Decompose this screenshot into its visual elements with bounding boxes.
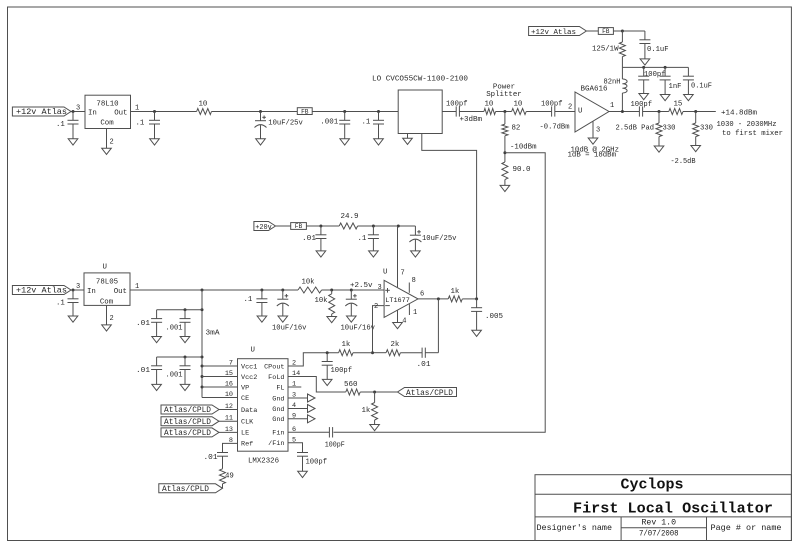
svg-text:Atlas/CPLD: Atlas/CPLD — [162, 485, 209, 494]
svg-text:4: 4 — [402, 317, 406, 325]
power flag +12v Atlas (middle) — [12, 286, 71, 296]
ground (BGA616 pin3) — [588, 138, 598, 144]
svg-text:Page # or name: Page # or name — [711, 523, 782, 533]
svg-text:LT1677: LT1677 — [385, 297, 410, 305]
resistor 15 (pad series) — [669, 100, 683, 114]
svg-text:100pF: 100pF — [325, 441, 345, 449]
power flag +12v Atlas (top left) — [12, 107, 71, 117]
ferrite bead FB (amp supply) — [598, 28, 613, 36]
wire supply bus — [622, 66, 688, 69]
wire FB to LO box — [312, 110, 398, 113]
capacitor 100pf (bus) — [638, 67, 665, 93]
wire VP pin 16 — [202, 386, 238, 388]
svg-text:In: In — [87, 288, 96, 296]
ground (100pf CPout) — [322, 379, 332, 385]
svg-text:FoLd: FoLd — [268, 374, 284, 382]
svg-text:7/07/2008: 7/07/2008 — [639, 529, 679, 538]
title page cell — [711, 523, 782, 533]
svg-text:Splitter: Splitter — [486, 91, 521, 99]
wire FB to 24.9 — [306, 225, 339, 228]
svg-text:6: 6 — [420, 291, 424, 299]
svg-text:.01: .01 — [136, 320, 151, 328]
ground (78L05 Com) — [102, 325, 112, 331]
capacitor .01 (branch 1) — [136, 310, 162, 337]
svg-text:100pf: 100pf — [631, 101, 653, 109]
wire CE pin 10 — [202, 397, 238, 399]
svg-text:1030 - 2030MHz: 1030 - 2030MHz — [717, 121, 777, 129]
svg-text:LMX2326: LMX2326 — [248, 458, 279, 466]
svg-text:Rev 1.0: Rev 1.0 — [642, 518, 677, 527]
wire Gnd pin 3 — [288, 397, 308, 399]
power flag +20v — [254, 222, 276, 232]
resistor 125/1W — [592, 31, 625, 67]
ground arrow (Gnd 9) — [308, 415, 316, 423]
ferrite bead FB (+20v) — [291, 223, 307, 231]
wire splitter to input cap — [526, 111, 551, 113]
flag Atlas/CPLD (CLK) — [161, 417, 238, 427]
svg-text:8: 8 — [412, 277, 416, 285]
ground (10uF/16v ref) — [347, 316, 357, 322]
capacitor .01 (Ref) — [204, 453, 229, 469]
svg-text:2.5dB Pad: 2.5dB Pad — [616, 124, 655, 132]
svg-text:U: U — [578, 108, 582, 116]
capacitor 10uF/25v (top rail) — [255, 112, 304, 139]
svg-text:.001: .001 — [166, 372, 184, 380]
ground (10k shunt) — [327, 317, 337, 323]
svg-text:10: 10 — [199, 100, 208, 108]
wire Vcc bus vertical — [201, 290, 204, 398]
wire Vcc1 pin 7 — [202, 365, 238, 367]
ground (100pf bus) — [639, 94, 649, 100]
capacitor .01 (branch 2) — [136, 357, 162, 384]
pin 3 label (LT1677) — [378, 284, 382, 292]
capacitor 1nF (bus) — [660, 67, 682, 94]
pin 3 label (78L05) — [76, 283, 80, 291]
ground (78L10 Com) — [102, 148, 112, 154]
wire 24.9 to 10uF — [358, 225, 416, 228]
op-amp U LT1677 — [383, 269, 418, 318]
flag Atlas/CPLD (FoLd) — [398, 388, 457, 398]
pin 2 wire (inverting input) — [373, 303, 385, 353]
svg-text:82nH: 82nH — [604, 78, 621, 86]
ground (10uF/16v rail) — [278, 316, 288, 322]
svg-text:100pf: 100pf — [541, 100, 563, 108]
ground (.01 branch2) — [152, 384, 162, 390]
capacitor .1 (78L10 output) — [136, 112, 161, 139]
svg-text:/Fin: /Fin — [268, 440, 284, 448]
regulator U 78L10 — [85, 95, 131, 128]
svg-text:1k: 1k — [362, 407, 371, 415]
wire -10dBm feedback to Fin — [334, 153, 546, 433]
ground (.001 branch2) — [180, 384, 190, 390]
svg-text:+14.8dBm: +14.8dBm — [721, 109, 758, 117]
wire 78L10 Com to ground — [107, 129, 114, 149]
svg-text:10: 10 — [514, 100, 523, 108]
capacitor 100pf (CPout) — [322, 353, 352, 380]
resistor 10k (divider series) — [298, 278, 322, 293]
wire opamp pin 4 to ground — [398, 310, 407, 325]
wire 90.0 to ground — [504, 180, 506, 186]
svg-text:2k: 2k — [391, 341, 400, 349]
resistor 10 (splitter left) — [484, 100, 496, 114]
svg-text:330: 330 — [663, 124, 676, 132]
svg-text:.001: .001 — [320, 119, 339, 127]
svg-text:.01: .01 — [417, 361, 432, 369]
title block frame — [535, 475, 791, 541]
svg-text:100pf: 100pf — [306, 459, 328, 467]
wire CPout pin 2 handled above — [0, 0, 1, 1]
ground (100pf /Fin) — [298, 471, 308, 477]
svg-text:1k: 1k — [451, 288, 460, 296]
svg-text:.1: .1 — [362, 119, 371, 127]
capacitor .005 — [471, 299, 503, 330]
wire output to feedback — [437, 299, 439, 353]
ground (.001 branch1) — [180, 337, 190, 343]
svg-text:-10dBm: -10dBm — [510, 144, 537, 152]
svg-text:100pf: 100pf — [446, 100, 468, 108]
svg-text:2: 2 — [292, 360, 296, 368]
ground (10uF/25v opamp) — [411, 251, 421, 257]
pin 1 label (BGA616) — [610, 102, 614, 110]
svg-text:LE: LE — [241, 430, 249, 438]
svg-text:LO CVCO55CW-1100-2100: LO CVCO55CW-1100-2100 — [372, 76, 468, 84]
svg-text:2: 2 — [568, 103, 572, 111]
node pad input — [616, 110, 669, 132]
ground (0.1uF amp supply) — [640, 59, 650, 65]
svg-text:U: U — [251, 347, 255, 355]
capacitor .001 (branch 2) — [166, 357, 191, 384]
svg-text:.1: .1 — [56, 300, 65, 308]
capacitor 100pf (LO output) — [442, 100, 484, 124]
svg-text:VP: VP — [241, 384, 249, 392]
ground (output .1 cap) — [150, 139, 160, 145]
pin 3 label — [76, 105, 80, 113]
oscillator LO CVCO55CW-1100-2100 — [372, 76, 468, 134]
svg-text:Fin: Fin — [272, 430, 284, 438]
svg-text:24.9: 24.9 — [341, 213, 359, 221]
capacitor 100pf (BGA616 input) — [540, 100, 576, 131]
wire FL stub pin 1 — [288, 386, 301, 388]
svg-text:10k: 10k — [302, 278, 316, 286]
resistor 330 (pad shunt 2) — [693, 112, 713, 146]
wire bypass branch 2 — [157, 356, 202, 359]
LMX2326 pin labels — [225, 360, 300, 449]
svg-text:1: 1 — [135, 283, 139, 291]
title designer cell — [537, 523, 613, 533]
svg-text:Cyclops: Cyclops — [621, 477, 684, 494]
svg-text:125/1W: 125/1W — [592, 46, 619, 54]
ground (330 pad 1) — [654, 146, 664, 152]
title rev cell — [639, 518, 679, 538]
pin 1 stub (LT1677) — [409, 304, 417, 317]
svg-text:First Local Oscillator: First Local Oscillator — [573, 501, 773, 518]
svg-text:Atlas/CPLD: Atlas/CPLD — [164, 418, 211, 427]
svg-text:.005: .005 — [485, 313, 503, 321]
svg-text:FB: FB — [301, 108, 309, 115]
resistor 560 — [344, 381, 360, 395]
svg-text:CLK: CLK — [241, 419, 254, 427]
svg-text:2: 2 — [110, 139, 114, 147]
svg-text:Gnd: Gnd — [272, 416, 284, 424]
svg-text:15: 15 — [674, 100, 683, 108]
svg-text:+12v Atlas: +12v Atlas — [531, 29, 576, 37]
svg-text:U: U — [103, 263, 107, 271]
wire BGA616 output — [609, 110, 638, 113]
svg-text:100pf: 100pf — [331, 367, 353, 375]
flag Atlas/CPLD (Data) — [161, 405, 238, 415]
svg-text:CPout: CPout — [264, 363, 284, 371]
svg-text:Designer's name: Designer's name — [537, 523, 613, 533]
ground arrow (Gnd 3) — [308, 394, 316, 402]
ground (.001 cap) — [340, 139, 350, 145]
svg-text:Atlas/CPLD: Atlas/CPLD — [164, 406, 211, 415]
amplifier U BGA616 — [575, 85, 609, 132]
title Cyclops — [621, 477, 684, 494]
power flag +12v Atlas (top right) — [529, 27, 587, 37]
output label — [717, 109, 784, 138]
regulator U 78L05 — [84, 263, 130, 306]
resistor 10 (splitter right) — [512, 100, 527, 114]
svg-text:CE: CE — [241, 395, 249, 403]
resistor 1k (FoLd) — [362, 392, 378, 425]
svg-text:to first mixer: to first mixer — [722, 130, 783, 138]
power splitter label — [486, 83, 521, 99]
svg-text:-2.5dB: -2.5dB — [671, 158, 697, 166]
svg-text:+2.5v: +2.5v — [350, 282, 373, 290]
capacitor 0.1uF (amp supply) — [639, 31, 668, 59]
svg-text:Out: Out — [114, 288, 127, 296]
inductor 82nH — [604, 67, 628, 111]
svg-text:10uF/16v: 10uF/16v — [272, 324, 307, 332]
ground (.01 branch1) — [152, 337, 162, 343]
svg-text:1: 1 — [413, 309, 417, 317]
capacitor .01 (+20v) — [302, 226, 326, 251]
ground (LO box) — [403, 138, 413, 144]
svg-text:Com: Com — [100, 119, 114, 127]
svg-text:In: In — [88, 110, 97, 118]
gain note — [568, 146, 620, 159]
ground (330 pad 2) — [691, 146, 701, 152]
svg-text:+3dBm: +3dBm — [460, 116, 483, 124]
wire Fin pin 6 — [288, 431, 329, 433]
svg-text:10: 10 — [485, 100, 494, 108]
svg-text:2: 2 — [110, 315, 114, 323]
capacitor 100pf (amp output) — [631, 101, 660, 117]
svg-text:78L05: 78L05 — [96, 278, 118, 286]
svg-text:560: 560 — [344, 381, 358, 389]
pin 8 stub (LT1677) — [409, 277, 416, 293]
svg-text:FB: FB — [295, 223, 303, 230]
svg-text:BGA616: BGA616 — [581, 85, 608, 93]
wire Ref pin 8 — [223, 443, 238, 452]
wire BGA616 pin 3 to ground — [593, 121, 600, 138]
svg-text:+12v Atlas: +12v Atlas — [16, 107, 67, 117]
node pad output — [683, 110, 716, 113]
svg-text:FB: FB — [602, 28, 610, 35]
ground (.005 cap) — [472, 330, 482, 336]
capacitor .1 (78L05 input) — [56, 290, 79, 316]
current label 3mA — [206, 330, 221, 338]
node -10dBm — [503, 136, 537, 162]
svg-text:10uF/25v: 10uF/25v — [422, 235, 457, 243]
wire Out to resistor — [131, 105, 197, 114]
ground (.1 cap) — [374, 139, 384, 145]
ground (78L05 input cap) — [68, 316, 78, 322]
svg-text:Atlas/CPLD: Atlas/CPLD — [406, 389, 453, 398]
resistor 1k (feedback) — [339, 341, 373, 356]
wire flag to U78L10 In — [71, 110, 85, 113]
svg-text:2: 2 — [374, 303, 378, 311]
node FoLd junction — [360, 391, 397, 394]
ground (LT1677 pin 4) — [393, 323, 403, 329]
wire 1k to Vtune node — [462, 297, 478, 300]
svg-text:Vcc1: Vcc1 — [241, 363, 257, 371]
wire +20v flag to FB — [276, 225, 291, 227]
wire LO ground pin — [407, 134, 409, 139]
svg-text:3: 3 — [378, 284, 382, 292]
ground (1nF bus) — [660, 95, 670, 101]
svg-text:3mA: 3mA — [206, 330, 221, 338]
flag Atlas/CPLD (Ref) — [159, 484, 223, 494]
ferrite bead FB (top rail) — [297, 108, 312, 116]
resistor 82 (splitter shunt) — [502, 112, 520, 136]
svg-text:100pf: 100pf — [644, 71, 666, 79]
svg-text:3: 3 — [596, 126, 600, 134]
svg-text:Ref: Ref — [241, 441, 253, 449]
svg-text:10k: 10k — [315, 297, 329, 305]
svg-text:90.0: 90.0 — [513, 166, 531, 174]
capacitor .001 (LO supply) — [320, 112, 350, 139]
wire resistor to FB — [212, 110, 298, 113]
svg-text:330: 330 — [700, 125, 713, 133]
svg-text:1nF: 1nF — [669, 83, 682, 91]
ground (.01 +20v) — [316, 251, 326, 257]
svg-text:FL: FL — [276, 384, 284, 392]
svg-text:3: 3 — [76, 283, 80, 291]
capacitor .01 (feedback) — [400, 348, 438, 369]
svg-text:7: 7 — [401, 270, 405, 278]
capacitor 100pF (Fin) — [325, 427, 345, 449]
capacitor 10uF/16v (2.5v ref) — [341, 290, 376, 332]
svg-text:Vcc2: Vcc2 — [241, 374, 257, 382]
capacitor 100pf (/Fin) — [297, 453, 327, 472]
capacitor .1 (LO supply) — [362, 112, 385, 139]
svg-text:10uF/16v: 10uF/16v — [341, 324, 376, 332]
svg-text:U: U — [383, 269, 387, 277]
flag Atlas/CPLD (LE) — [161, 428, 238, 438]
ground (10uF/25v) — [256, 139, 266, 145]
svg-text:.1: .1 — [244, 296, 253, 304]
capacitor .001 (branch 1) — [166, 310, 191, 337]
svg-text:.1: .1 — [358, 235, 367, 243]
svg-text:78L10: 78L10 — [96, 100, 118, 108]
svg-text:1dB = 18dBm: 1dB = 18dBm — [568, 152, 617, 160]
wire flag to FB — [586, 30, 598, 32]
svg-text:82: 82 — [512, 124, 521, 132]
resistor 24.9 — [339, 213, 358, 229]
svg-text:49: 49 — [225, 473, 234, 481]
wire LO Vtune path — [422, 134, 477, 300]
title First Local Oscillator — [573, 501, 773, 518]
ground (90.0 resistor) — [500, 185, 510, 191]
svg-text:Data: Data — [241, 407, 257, 415]
capacitor .1 (5v rail) — [244, 290, 268, 316]
resistor 1k (opamp output) — [448, 288, 462, 302]
capacitor .1 (78L10 input) — [56, 112, 79, 139]
resistor 330 (pad shunt 1) — [656, 112, 676, 147]
capacitor .1 (opamp supply) — [358, 226, 379, 251]
capacitor 10uF/25v (opamp supply) — [409, 226, 457, 251]
ground (1k FoLd) — [370, 425, 380, 431]
ground (.1 5v rail) — [257, 316, 267, 322]
svg-text:0.1uF: 0.1uF — [647, 46, 669, 54]
svg-text:+12v Atlas: +12v Atlas — [16, 286, 67, 296]
ground (.1 opamp supply) — [369, 251, 379, 257]
resistor 90.0 (splitter shunt 2) — [502, 162, 531, 180]
wire opamp pin 7 — [398, 226, 405, 287]
svg-text:Gnd: Gnd — [272, 395, 284, 403]
node +2.5v — [322, 282, 385, 292]
svg-text:1: 1 — [610, 102, 614, 110]
svg-text:-0.7dBm: -0.7dBm — [540, 123, 571, 131]
capacitor 10uF/16v (5v rail) — [272, 290, 307, 332]
svg-text:.1: .1 — [136, 119, 145, 127]
resistor 2k (feedback) — [386, 341, 400, 356]
svg-text:1k: 1k — [342, 341, 351, 349]
resistor 10k (divider shunt) — [315, 290, 335, 317]
pin 6 output wire — [418, 291, 448, 301]
svg-text:.01: .01 — [302, 235, 317, 243]
wire FoLd pin 14 — [288, 377, 346, 393]
capacitor 0.1uF (bus) — [683, 67, 712, 94]
svg-text:+20v: +20v — [255, 224, 272, 232]
svg-text:Out: Out — [114, 110, 127, 118]
resistor 10 (top rail) — [197, 100, 212, 114]
wire 78L05 Com to ground — [107, 305, 114, 325]
ground (0.1uF bus) — [684, 95, 694, 101]
wire Vcc2 pin 15 — [202, 376, 238, 378]
node splitter junction — [496, 110, 512, 113]
wire bypass branch 1 — [157, 308, 202, 311]
wire 78L05 Out rail — [130, 283, 298, 292]
svg-text:0.1uF: 0.1uF — [691, 82, 712, 90]
pin 2 label (BGA616) — [568, 103, 572, 111]
ground arrow (Gnd 4) — [308, 405, 316, 413]
ground (input .1 cap) — [68, 139, 78, 145]
svg-text:.01: .01 — [204, 454, 219, 462]
PLL U LMX2326 — [238, 347, 289, 466]
svg-text:.001: .001 — [166, 325, 184, 333]
node inverting — [371, 351, 386, 354]
svg-text:Atlas/CPLD: Atlas/CPLD — [164, 429, 211, 438]
resistor 49 (Ref) — [220, 469, 234, 489]
svg-text:.01: .01 — [136, 367, 151, 375]
wire flag to U78L05 In — [71, 289, 84, 292]
svg-text:.1: .1 — [56, 121, 65, 129]
wire CPout riser — [288, 351, 339, 366]
wire Gnd pin 4 — [288, 408, 308, 410]
svg-text:Gnd: Gnd — [272, 406, 284, 414]
svg-text:10uF/25v: 10uF/25v — [268, 119, 303, 127]
wire FB to 0.1uF corner — [613, 30, 645, 33]
pad loss label — [671, 158, 697, 166]
svg-text:3: 3 — [76, 105, 80, 113]
svg-text:1: 1 — [135, 105, 139, 113]
wire Gnd pin 9 — [288, 418, 308, 420]
wire /Fin pin 5 — [288, 443, 303, 453]
